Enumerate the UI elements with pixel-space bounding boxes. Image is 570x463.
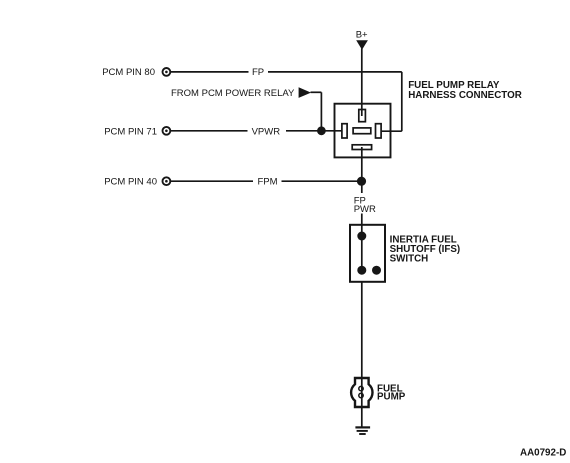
svg-text:FROM PCM POWER RELAY: FROM PCM POWER RELAY — [171, 88, 295, 99]
terminal PCM PIN 80 — [163, 68, 171, 76]
wire through pump — [361, 378, 363, 407]
ground — [355, 427, 370, 434]
junction FPM node — [357, 177, 366, 186]
wire FP horizontal left — [171, 71, 249, 73]
wire IFS to pump — [361, 282, 363, 378]
pin top (coil B+) — [359, 110, 366, 122]
wire IFS internal — [361, 236, 363, 270]
svg-text:FPM: FPM — [258, 177, 278, 188]
wire FPM left — [171, 180, 253, 182]
svg-text:VPWR: VPWR — [252, 126, 281, 137]
pin left (VPWR) — [342, 124, 347, 138]
pump terminal upper — [359, 386, 363, 390]
junction VPWR node — [317, 126, 326, 135]
pin bottom (FP PWR) — [352, 145, 371, 150]
wire from pcm power relay vertical — [320, 92, 322, 131]
wire VPWR right — [286, 130, 342, 132]
svg-text:PCM PIN 40: PCM PIN 40 — [104, 177, 157, 188]
terminal PCM PIN 40 — [163, 177, 171, 185]
svg-text:AA0792-D: AA0792-D — [520, 448, 566, 459]
svg-text:PCM PIN 71: PCM PIN 71 — [104, 126, 157, 137]
switch inertia fuel shutoff box — [350, 225, 385, 282]
pin center (horizontal) — [353, 128, 371, 134]
wire FP horizontal right — [268, 71, 402, 73]
wire VPWR left — [171, 130, 248, 132]
svg-text:B+: B+ — [356, 30, 368, 41]
svg-text:SWITCH: SWITCH — [390, 253, 429, 264]
wire FP to right pin — [381, 130, 402, 132]
node IFS top contact — [357, 232, 366, 241]
connector fuel pump relay box — [335, 104, 391, 158]
arrow from PCM power relay — [299, 87, 311, 98]
svg-text:HARNESS CONNECTOR: HARNESS CONNECTOR — [408, 90, 522, 101]
wire pump to ground — [361, 407, 363, 427]
wire B+ vertical — [361, 49, 363, 117]
svg-text:FP: FP — [252, 67, 264, 78]
svg-text:PCM PIN 80: PCM PIN 80 — [102, 67, 155, 78]
wire relay bottom down — [361, 147, 363, 193]
terminal PCM PIN 71 — [163, 127, 171, 135]
pump terminal lower — [359, 393, 363, 397]
battery feed arrow B+ — [356, 40, 368, 49]
wire FPM right — [282, 180, 362, 182]
pin right (FP) — [376, 124, 382, 138]
wire FP corner vertical — [401, 72, 403, 131]
motor fuel pump body — [351, 378, 372, 407]
svg-text:PUMP: PUMP — [377, 392, 406, 403]
node IFS bottom-right contact — [372, 266, 381, 275]
wire from pcm power relay horizontal — [311, 91, 322, 93]
wire FP PWR to IFS — [361, 214, 363, 237]
svg-text:PWR: PWR — [354, 204, 376, 215]
node IFS bottom-left contact — [357, 266, 366, 275]
